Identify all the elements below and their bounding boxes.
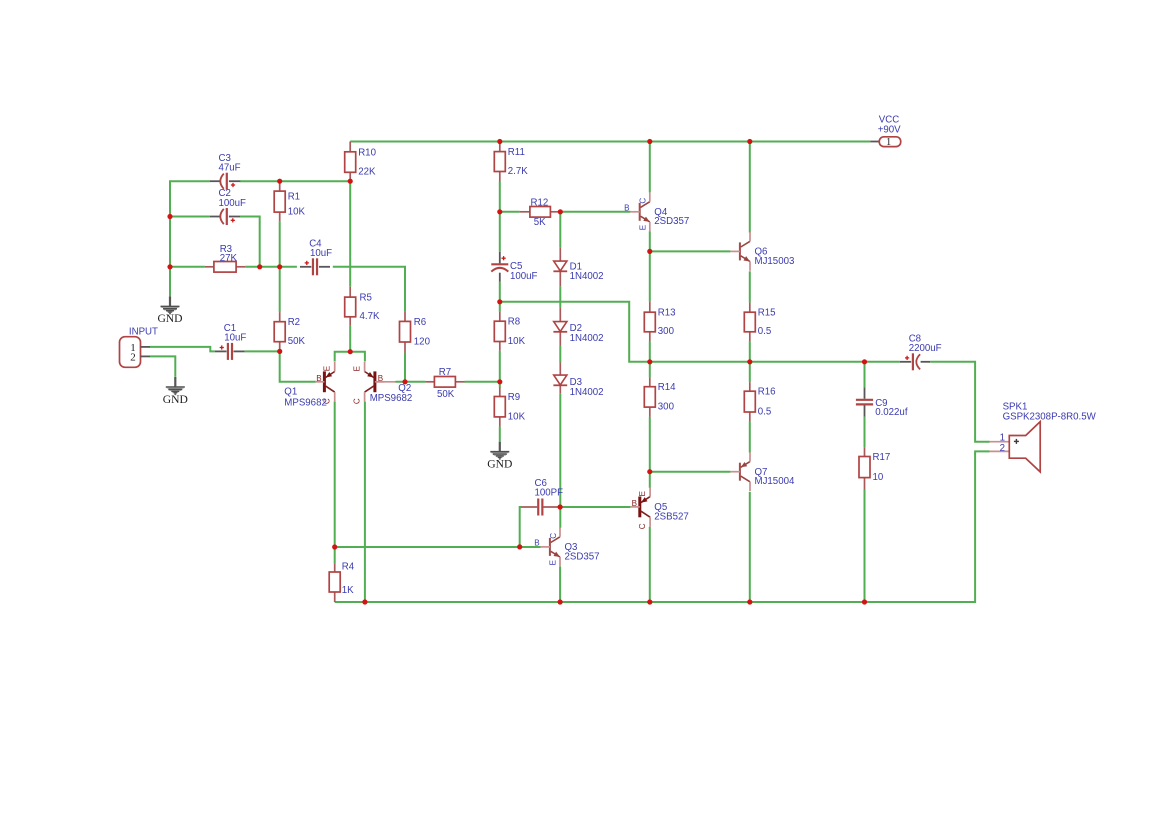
ground GND left (C-row) [157,296,182,325]
wire net Q3 emitter down [559,566,561,602]
svg-text:C: C [639,198,648,204]
transistor Q4 2SD357 [624,192,689,231]
svg-text:50K: 50K [288,336,306,347]
wire net R12 node down to D1 [559,212,561,248]
resistor R3 27K [205,244,245,272]
capacitor C1 10uF [215,323,246,360]
svg-text:Q1: Q1 [284,387,297,398]
resistor R9 10K [494,387,525,426]
resistor R15 0.5 [744,303,775,342]
wire net Q4 collector to top rail [649,142,651,193]
svg-text:100uF: 100uF [510,271,538,282]
diode D2 1N4002 [553,307,603,346]
svg-text:R15: R15 [758,308,776,319]
wire net C8 right to SPK pin1 [930,362,990,442]
svg-text:100PF: 100PF [535,488,564,499]
wire net Q7 collector to rail [749,492,751,602]
svg-text:E: E [549,559,558,565]
wire net node down to R13 [649,251,651,302]
junction rail/Q5c [647,599,652,604]
junction top rail/R11 [497,139,502,144]
resistor R16 0.5 [744,382,775,421]
junction C2-row/left [167,214,172,219]
svg-text:B: B [632,499,637,508]
resistor R8 10K [494,312,525,351]
wire net R16 top [749,362,751,382]
svg-text:+90V: +90V [878,124,901,135]
svg-text:B: B [534,539,539,548]
capacitor C8 2200uF [900,334,942,371]
svg-text:R10: R10 [358,147,376,158]
wire net INPUT pin1 to C1 [150,347,215,352]
wire net R3 left [170,266,205,268]
resistor R10 22K [345,142,377,182]
resistor R6 120 [400,311,431,352]
resistor R1 10K [274,181,305,221]
svg-text:R1: R1 [288,191,300,202]
junction R3-row/R1 [277,264,282,269]
wire net C3-row left / left vertical [170,181,210,296]
svg-text:22K: 22K [358,167,376,178]
wire net R8 bottom [499,351,501,382]
wire net R13 bottom [649,341,651,361]
svg-text:0.022uf: 0.022uf [875,407,908,418]
svg-text:2.7K: 2.7K [508,166,528,177]
svg-text:E: E [639,224,648,230]
wire net Q6 collector to top rail [749,142,751,233]
svg-text:GND: GND [163,393,188,406]
wire net C4 right to R6 top [333,267,405,312]
wire net R9 top stub [499,382,501,388]
svg-text:R13: R13 [658,308,676,319]
label Q2 [370,383,413,404]
svg-text:300: 300 [658,326,675,337]
transistor Q6 MJ15003 [731,232,795,271]
wire net C2 left [170,216,210,218]
svg-text:10: 10 [873,472,884,483]
wire net R7 right to R8 node [465,381,500,383]
wire net R4 top [334,547,336,563]
resistor R13 300 [644,302,675,342]
svg-text:B: B [378,374,383,383]
capacitor C2 100uF [210,188,246,225]
junction C6/Q5 base [558,504,563,509]
capacitor C4 10uF [300,238,332,275]
resistor R11 2.7K [494,142,528,182]
svg-text:2SD357: 2SD357 [654,216,689,227]
junction C1/R2 [277,349,282,354]
speaker SPK1 GSPK2308P-8R0.5W [990,402,1097,472]
resistor R5 4.7K [345,287,380,326]
label Q5 [654,502,688,522]
svg-text:1N4002: 1N4002 [570,271,604,282]
resistor R14 300 [644,378,676,417]
wire net Q4 emitter to node [649,231,651,251]
svg-text:R14: R14 [658,382,676,393]
wire net Q7 base row [650,471,731,473]
wire net C3-row right [240,180,350,182]
wire net bottom rail [335,451,990,602]
capacitor C6 100PF [521,478,563,516]
wire net row 547 [335,546,541,548]
wire net R2 top [279,267,281,312]
wire net R2 junction down to Q1 base [280,351,316,381]
transistor Q3 2SD357 [534,528,599,567]
wire net C9 bottom to R17 [864,417,866,448]
wire net VCC top rail [350,141,870,143]
svg-text:10K: 10K [508,411,526,422]
svg-text:R16: R16 [758,387,776,398]
wire net R16 bottom to Q7 emitter [749,421,751,452]
svg-text:R17: R17 [873,452,891,463]
wire net R6 bottom to Q2 base node [404,353,406,382]
svg-text:100uF: 100uF [219,198,247,209]
transistor Q2 MPS9682 [352,362,384,404]
wire net D1-D2 [559,286,561,307]
junction Q2 base/R6 [402,379,407,384]
svg-text:R4: R4 [342,562,355,573]
wire net Q5 collector down [649,527,651,602]
wire net C5 bottom to junction [499,282,501,302]
svg-text:1N4002: 1N4002 [570,333,604,344]
svg-text:2: 2 [1000,443,1005,454]
wire net Q6 emitter to R15 [749,271,751,302]
svg-text:120: 120 [414,336,431,347]
resistor R17 10 [859,447,890,489]
junction rail/R17 [862,599,867,604]
wire net R5 bottom to emitters [349,326,351,352]
svg-text:R12: R12 [531,198,549,209]
svg-text:C: C [549,533,558,539]
svg-text:B: B [624,203,629,212]
svg-text:1: 1 [886,137,891,148]
svg-text:C: C [352,398,361,404]
junction C5/R8 row [497,299,502,304]
junction C3-row/R1 [277,179,282,184]
svg-text:2: 2 [130,352,136,364]
wire net R17 bottom [864,490,866,603]
resistor R2 50K [274,312,305,351]
junction row362/R13-R14 [647,359,652,364]
capacitor C5 100uF [491,252,537,282]
wire net R10/R5 vertical [349,181,351,287]
diode D1 1N4002 [553,247,603,286]
svg-text:2SB527: 2SB527 [654,511,688,522]
svg-text:R5: R5 [360,293,372,304]
svg-text:1K: 1K [342,585,354,596]
transistor Q5 2SB527 [631,487,651,529]
wire net Q4e to Q6 base [650,250,731,252]
svg-text:0.5: 0.5 [758,326,771,337]
svg-text:R6: R6 [414,317,426,328]
svg-text:R9: R9 [508,392,520,403]
svg-text:MJ15004: MJ15004 [755,476,795,487]
wire net C1 right to R2 junction [245,350,280,352]
wire net Q2 collector down [364,402,366,602]
svg-text:GND: GND [157,312,182,325]
connector INPUT [120,326,159,367]
svg-text:5K: 5K [534,217,546,228]
resistor R4 1K [329,562,355,602]
junction rail/Q3e [558,599,563,604]
junction rail/Q2c [362,599,367,604]
svg-text:1N4002: 1N4002 [570,387,604,398]
svg-text:E: E [352,365,361,371]
wire net Q5 emitter up [649,472,651,488]
svg-text:E: E [638,490,647,496]
wire net C5 junction row + jog down [500,302,900,362]
svg-text:10uF: 10uF [224,332,246,343]
wire net R3 right to C4 [245,266,297,268]
wire net 547 up to C6 [520,507,521,547]
junction row362/C9 [862,359,867,364]
capacitor C9 0.022uf [856,387,908,418]
svg-text:47uF: 47uF [219,163,241,174]
resistor R12 5K [520,198,559,229]
svg-text:10uF: 10uF [310,248,332,259]
svg-text:INPUT: INPUT [129,326,158,337]
wire net R14 top [649,362,651,378]
svg-text:300: 300 [658,402,675,413]
junction emitters/R5 [348,349,353,354]
resistor R7 50K [425,367,464,400]
wire net D2-D3 [559,346,561,363]
svg-text:10K: 10K [508,336,526,347]
wire net C9 top [864,362,866,388]
ground GND input [163,377,188,406]
svg-text:MJ15003: MJ15003 [755,256,795,267]
wire net C2 right down to R3 row [240,217,260,267]
svg-text:2200uF: 2200uF [909,343,942,354]
junction R3-row/left [167,264,172,269]
wire net Q2 base to R6 node [396,381,426,383]
power terminal VCC +90V [870,114,901,148]
svg-text:4.7K: 4.7K [360,311,380,322]
junction top rail/Q6c [747,139,752,144]
wire emitter bridge Q1-Q2 [335,352,365,362]
wire net C6/Q5 base row [560,506,630,508]
junction C3-row/R10 [348,179,353,184]
junction R12/D1 [558,209,563,214]
junction R3-row/C2 [257,264,262,269]
wire net Q1 collector down [334,402,336,547]
svg-text:R7: R7 [439,367,451,378]
junction R11/R12 [497,209,502,214]
transistor Q7 MJ15004 [731,452,795,491]
junction Q7 base/R14/Q5e [647,469,652,474]
wire net R9 bottom to GND [499,427,501,442]
svg-text:E: E [323,365,332,371]
wire net R15 bottom [749,341,751,362]
svg-text:R11: R11 [508,147,525,158]
svg-text:B: B [316,374,321,383]
svg-text:C: C [638,523,647,529]
wire net R1 bottom [279,221,281,267]
pin Q2 base lead [376,381,396,383]
svg-text:R2: R2 [288,317,300,328]
wire net R12 left [500,211,520,213]
wire net R11 bottom to R12 node [499,182,501,252]
svg-text:R8: R8 [508,317,520,328]
junction row547/C6 branch [517,544,522,549]
wire net R8 top [499,302,501,312]
ground GND R9 [487,442,512,471]
junction Q4e/Q6b/R13 [647,249,652,254]
junction rail/Q7c [747,599,752,604]
svg-text:27K: 27K [220,253,238,264]
svg-text:MPS9682: MPS9682 [370,393,413,404]
svg-text:GSPK2308P-8R0.5W: GSPK2308P-8R0.5W [1003,412,1097,423]
diode D3 1N4002 [553,363,603,399]
junction top rail/Q4c [647,139,652,144]
svg-text:50K: 50K [437,389,455,400]
wire net R12 right to Q4 base [558,211,630,213]
wire net INPUT pin2 to GND [150,356,175,377]
svg-text:GND: GND [487,458,512,471]
svg-text:MPS9682: MPS9682 [284,397,327,408]
transistor Q1 MPS9682 [315,362,335,404]
svg-text:2SD357: 2SD357 [565,551,600,562]
junction Q1c/R4 [332,544,337,549]
svg-text:0.5: 0.5 [758,406,771,417]
wire net R14 bottom to Q7 base node [649,417,651,472]
capacitor C3 47uF [210,153,241,190]
wire net D3 to Q3 collector [559,394,561,528]
svg-text:10K: 10K [288,207,306,218]
junction row362/R15-R16 [747,359,752,364]
junction R7/R8 [497,379,502,384]
label Q1 [284,387,327,409]
